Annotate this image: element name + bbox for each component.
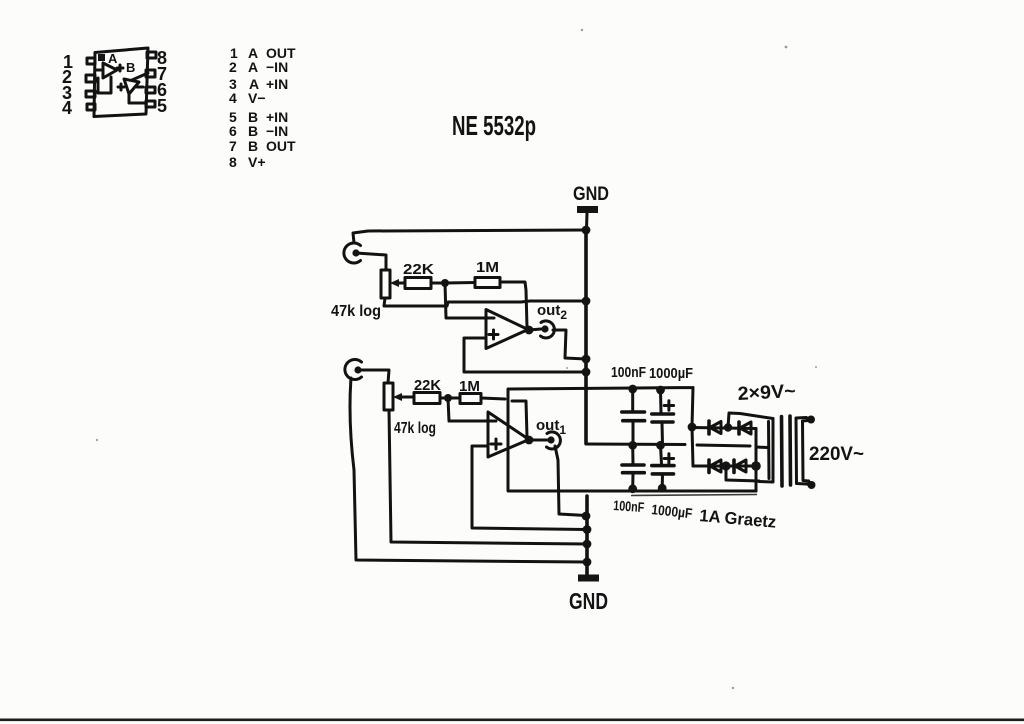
- resistor 22K A: [405, 278, 431, 289]
- op-amp A plus: [117, 65, 123, 71]
- potentiometer 47k log B: [384, 383, 414, 410]
- node jack B shield junction: [583, 558, 592, 567]
- svg-text:GND: GND: [569, 588, 608, 614]
- wire node to 1M B: [448, 397, 460, 400]
- svg-text:47k log: 47k log: [394, 420, 436, 437]
- op-amp A triangle: [486, 310, 528, 349]
- wire GND bus lower: [585, 496, 589, 576]
- wire jack out2 shield to GND bus: [553, 330, 586, 359]
- node cap junction mid rail left: [628, 441, 637, 450]
- wire jack A shield to GND: [353, 230, 586, 243]
- diode D1: [709, 421, 721, 434]
- wire jack B shield to GND bus: [350, 378, 587, 562]
- wire secondary top lead: [728, 413, 773, 428]
- svg-text:1M: 1M: [459, 378, 480, 395]
- wire primary bottom stub: [807, 481, 812, 485]
- pin1 marker dot: [98, 54, 105, 61]
- connector jack input B: [345, 359, 362, 379]
- node bridge top AC: [724, 423, 732, 431]
- wire PSU mid rail: [586, 443, 685, 447]
- svg-text:B: B: [126, 60, 135, 75]
- diode D2: [739, 422, 751, 434]
- wire 1M B feedback to output: [481, 398, 527, 437]
- pin 4 tab: [87, 104, 95, 110]
- pin 6 tab: [146, 87, 155, 93]
- capacitor 100nF lower: [622, 445, 644, 488]
- pin 3 tab: [86, 91, 95, 97]
- svg-text:A: A: [108, 51, 118, 66]
- wire output B to jack out1: [529, 439, 547, 442]
- wire center tap lead: [697, 445, 767, 448]
- node cap junction V+ rail left: [628, 385, 637, 394]
- node bridge V- corner: [751, 461, 761, 471]
- wire op-amp A non-inverting to GND bus: [464, 338, 586, 372]
- svg-text:100nF: 100nF: [613, 497, 645, 515]
- power supply box outline: [508, 388, 756, 492]
- diode D3: [709, 460, 721, 473]
- svg-text:7: 7: [229, 138, 237, 154]
- svg-text:4: 4: [62, 98, 72, 118]
- wire jack B to pot B: [358, 370, 389, 383]
- wire 22K A to node: [431, 282, 445, 285]
- node inverting input B: [444, 394, 452, 402]
- box bottom doubled stroke: [631, 495, 757, 496]
- resistor 22K B: [414, 393, 440, 404]
- node primary terminal top: [807, 416, 815, 424]
- node pot A gnd junction: [582, 297, 591, 306]
- op-amp A minus: [95, 69, 101, 72]
- capacitor 100nF upper: [622, 389, 645, 445]
- node out1 shield junction: [582, 512, 591, 521]
- op-amp B wiring to pin7: [132, 73, 148, 80]
- node bridge V+ terminal: [688, 423, 697, 432]
- wire bridge right column: [755, 429, 758, 492]
- wire output A to jack out2: [529, 329, 541, 330]
- wire 1M A feedback to output: [500, 282, 527, 327]
- capacitor 1000uF lower: [652, 445, 674, 488]
- svg-text:B: B: [248, 138, 258, 154]
- svg-text:V+: V+: [248, 154, 266, 170]
- resistor 1M A: [475, 278, 500, 288]
- node pot B gnd junction: [583, 540, 592, 549]
- node bridge bottom AC: [721, 461, 730, 470]
- node cap junction mid rail right: [656, 441, 665, 450]
- transformer primary winding: [796, 418, 809, 485]
- wire GND bus inside box: [584, 389, 588, 444]
- pin 1 tab: [87, 58, 95, 64]
- wire op-amp B non-inverting to GND bus: [472, 446, 587, 530]
- connector jack out2: [541, 321, 555, 338]
- wire pot A bottom to GND bus: [384, 298, 586, 306]
- wire 22K B to node: [440, 397, 448, 400]
- resistor 1M B: [460, 394, 481, 404]
- svg-text:V−: V−: [248, 90, 266, 106]
- connector jack input A: [344, 243, 361, 263]
- wire secondary bottom lead: [726, 466, 759, 481]
- wire primary top stub: [806, 418, 811, 421]
- svg-text:2×9V~: 2×9V~: [737, 381, 796, 405]
- svg-text:NE 5532p: NE 5532p: [452, 110, 536, 141]
- node top GND junction: [582, 226, 591, 235]
- svg-text:1000µF: 1000µF: [649, 366, 693, 382]
- node cap junction V+ rail right: [656, 386, 665, 395]
- wire pot B bottom to GND bus: [389, 410, 587, 544]
- node op-amp A plus gnd junction: [582, 368, 591, 377]
- svg-text:5: 5: [157, 96, 167, 116]
- op-amp A plus sign: [489, 330, 498, 339]
- svg-text:1M: 1M: [476, 259, 499, 276]
- wire node to 1M A: [445, 281, 475, 285]
- ground symbol bottom: [578, 575, 599, 582]
- pin 2 tab: [86, 75, 95, 82]
- svg-text:100nF: 100nF: [611, 365, 646, 381]
- node op-amp A output: [525, 326, 534, 335]
- wire bridge left column: [692, 427, 693, 466]
- node op-amp B output: [525, 436, 534, 445]
- svg-text:4: 4: [229, 90, 237, 106]
- wire jack out1 shield to GND bus: [555, 446, 586, 516]
- op-amp B plus sign: [491, 439, 501, 449]
- wire node to op-amp A inverting input: [445, 283, 494, 318]
- svg-text:−IN: −IN: [266, 59, 288, 75]
- diode D4: [734, 460, 746, 473]
- connector jack out1: [547, 432, 561, 449]
- op-amp B plus: [118, 84, 124, 90]
- node op-amp B plus gnd junction: [583, 525, 592, 534]
- pin 5 tab: [146, 101, 155, 107]
- svg-text:+IN: +IN: [266, 76, 288, 92]
- svg-text:22K: 22K: [403, 261, 434, 278]
- wire jack A to pot A: [356, 253, 386, 270]
- svg-text:220V~: 220V~: [809, 444, 864, 465]
- transformer secondary winding: [759, 419, 773, 483]
- svg-text:2: 2: [229, 59, 237, 75]
- scan edge line bottom: [0, 719, 1024, 722]
- wire bridge top row: [692, 428, 756, 429]
- op-amp B triangle: [124, 79, 139, 94]
- op-amp A triangle: [103, 63, 117, 78]
- node out2 shield junction: [582, 355, 591, 364]
- svg-text:OUT: OUT: [266, 138, 296, 154]
- wire node to op-amp B inverting input: [448, 398, 496, 421]
- potentiometer 47k log A: [381, 270, 405, 298]
- node cap junction V- rail left: [628, 484, 637, 493]
- node cap junction V- rail right: [658, 484, 667, 493]
- svg-text:A: A: [248, 59, 258, 75]
- wire bridge bottom row: [693, 465, 756, 468]
- pin 8 tab: [147, 52, 156, 58]
- op-amp U1 DIP-8 pinout body: [94, 48, 148, 117]
- op-amp B wiring to pin5: [129, 94, 146, 103]
- scan speckles: [96, 29, 817, 689]
- svg-text:−IN: −IN: [266, 123, 288, 139]
- pin 7 tab: [146, 70, 155, 77]
- transformer core: [782, 416, 791, 486]
- node primary terminal bottom: [808, 481, 816, 489]
- svg-text:22K: 22K: [414, 377, 441, 394]
- op-amp B minus: [137, 86, 143, 89]
- svg-text:8: 8: [229, 154, 237, 170]
- svg-text:47k log: 47k log: [331, 303, 381, 320]
- ground symbol top: [577, 206, 598, 213]
- op-amp A internal wiring: [98, 77, 111, 93]
- op-amp B triangle: [488, 412, 529, 457]
- svg-text:B: B: [248, 123, 258, 139]
- svg-text:6: 6: [229, 123, 237, 139]
- node inverting input A: [441, 279, 449, 287]
- svg-text:GND: GND: [573, 184, 609, 205]
- wire GND bus upper: [584, 230, 588, 388]
- capacitor 1000uF upper: [652, 390, 674, 445]
